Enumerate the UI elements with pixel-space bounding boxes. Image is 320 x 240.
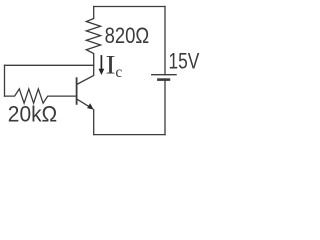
current arrow Ic: [99, 55, 105, 75]
wire bottom rail: [94, 134, 165, 136]
wire left vertical: [4, 65, 6, 96]
battery B1 positive plate: [152, 74, 176, 76]
node collector-feedback junction: [5, 64, 94, 66]
transistor Q1 emitter: [77, 99, 90, 107]
wire right rail upper: [164, 7, 166, 75]
svg-text:20kΩ: 20kΩ: [8, 101, 57, 126]
svg-text:c: c: [115, 64, 122, 81]
battery B1 negative plate: [158, 78, 169, 81]
wire right rail lower: [164, 80, 166, 135]
transistor Q1 base bar: [76, 78, 78, 104]
svg-text:15V: 15V: [169, 49, 200, 74]
transistor Q1 emitter arrowhead: [87, 103, 94, 109]
wire emitter to bottom rail: [93, 110, 95, 135]
resistor R2 20kohm: [5, 89, 77, 103]
resistor R1 820ohm: [86, 7, 100, 59]
wire collector lead: [77, 58, 94, 84]
svg-text:I: I: [106, 51, 116, 80]
svg-text:820Ω: 820Ω: [105, 23, 150, 48]
wire top rail: [94, 6, 165, 8]
